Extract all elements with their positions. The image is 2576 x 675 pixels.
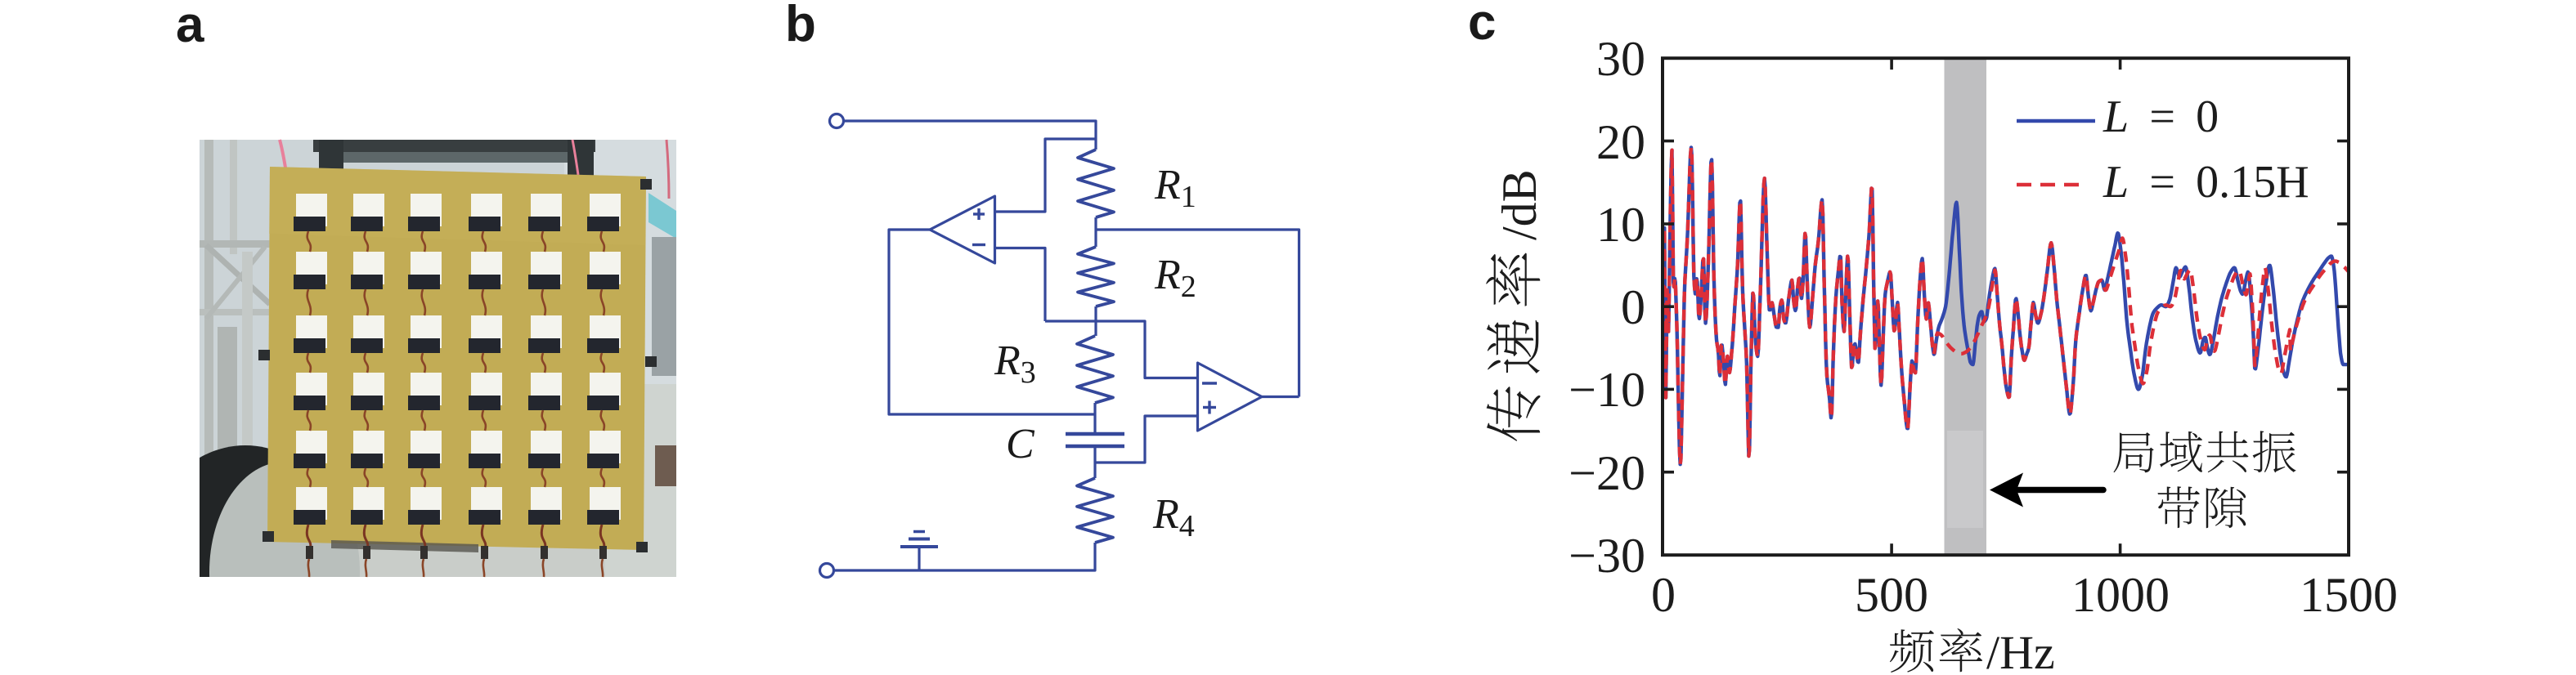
wire node to U2 - input	[1045, 321, 1198, 378]
band gap shaded region	[1945, 58, 1987, 555]
svg-text:500: 500	[1855, 568, 1928, 622]
shadow under board	[331, 540, 478, 552]
wire R1 to R2 node	[1094, 217, 1097, 247]
svg-text:C: C	[1006, 421, 1035, 467]
yellow board	[267, 167, 646, 550]
capacitor C	[1066, 432, 1124, 436]
svg-text:/Hz: /Hz	[1986, 626, 2055, 675]
svg-text:1000: 1000	[2071, 568, 2170, 622]
piezo patch grid	[296, 194, 327, 226]
svg-text:20: 20	[1596, 115, 1645, 169]
svg-text:−10: −10	[1568, 363, 1645, 417]
legend line L=0.15H	[2017, 183, 2081, 187]
svg-text:−30: −30	[1568, 529, 1645, 583]
x axis label 频率/Hz	[1890, 626, 2055, 675]
input terminal top	[830, 114, 844, 128]
svg-text:R4: R4	[1152, 491, 1195, 543]
svg-text:10: 10	[1596, 198, 1645, 252]
scaffold left	[204, 140, 213, 467]
annotation 带隙	[2157, 486, 2246, 528]
dark top beam	[313, 140, 595, 152]
curve L=0.15H red dashed	[1663, 147, 2349, 464]
wire R2 to R3 node	[1094, 306, 1097, 336]
op-amp U2	[1198, 363, 1263, 431]
teal cable right	[648, 193, 676, 239]
legend line L=0	[2017, 119, 2095, 123]
wire U1 - input to node	[995, 248, 1046, 322]
svg-text:0: 0	[1621, 280, 1645, 334]
svg-text:L = 0.15H: L = 0.15H	[2103, 157, 2309, 208]
input terminal bottom	[820, 564, 834, 578]
svg-text:−20: −20	[1568, 446, 1645, 500]
photo background wall	[200, 140, 676, 577]
op-amp U1 output feedback wire	[889, 230, 1095, 414]
board corner clips	[640, 179, 652, 190]
svg-text:R3: R3	[994, 337, 1036, 390]
y axis label 传递率/dB (rotated)	[1486, 169, 1546, 441]
axes box	[1663, 58, 2349, 555]
resistor R2	[1078, 247, 1114, 306]
op-amp U1	[930, 196, 995, 263]
svg-text:b: b	[785, 0, 816, 52]
floor	[200, 530, 676, 577]
svg-text:/dB: /dB	[1492, 169, 1546, 240]
svg-text:a: a	[176, 0, 204, 53]
svg-text:0: 0	[1651, 568, 1676, 622]
pink wires top	[280, 140, 285, 168]
svg-text:30: 30	[1596, 32, 1645, 86]
wire U2 output	[1262, 396, 1299, 398]
resistor R3	[1077, 336, 1113, 403]
svg-text:R1: R1	[1154, 162, 1196, 214]
resistor R1	[1078, 150, 1114, 217]
svg-text:c: c	[1468, 0, 1496, 51]
wire top input to node	[844, 121, 1097, 150]
svg-text:1500: 1500	[2300, 568, 2398, 622]
resistor R4	[1077, 478, 1113, 543]
ground	[900, 532, 938, 571]
arrow to band gap	[2018, 487, 2103, 494]
wire node to U2 + input	[1095, 416, 1198, 463]
wire R4 to bottom rail	[834, 543, 1096, 570]
wire R3 to C node	[1093, 403, 1096, 434]
svg-text:L = 0: L = 0	[2103, 92, 2219, 142]
wire branch to op-amp U1 + input	[995, 139, 1097, 212]
wire C to R4 node	[1093, 446, 1096, 478]
wire node to right rail	[1096, 230, 1299, 397]
svg-text:R2: R2	[1154, 252, 1196, 304]
axis ticks	[1663, 58, 2349, 555]
curve L=0 blue solid	[1663, 147, 2349, 464]
annotation 局域共振	[2113, 431, 2296, 472]
